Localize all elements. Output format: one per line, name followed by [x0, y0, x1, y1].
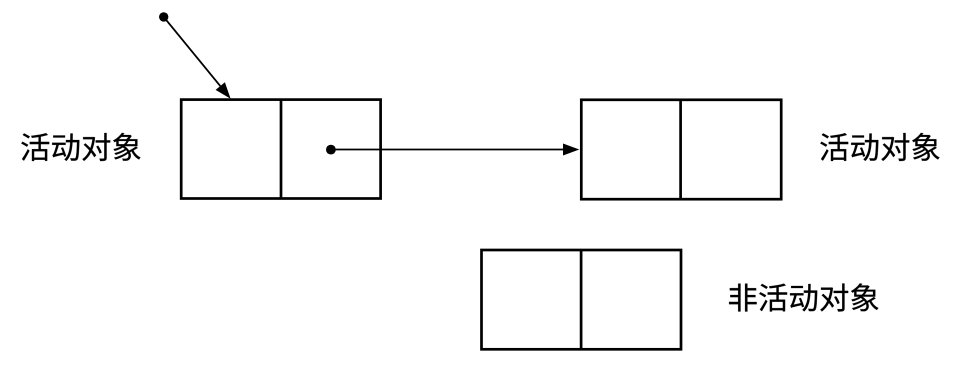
label: 活动对象 (left of object 1) [21, 133, 140, 161]
object 2 box (active object, two cells) [581, 100, 781, 199]
pointer dot inside object 1 second cell [326, 145, 336, 155]
root pointer dot (top left) [159, 12, 168, 21]
object 1 box (active object, two cells) [181, 100, 380, 199]
object 2 cell divider [679, 100, 682, 199]
arrowhead: pointer into object 2 [563, 144, 579, 156]
object 3 cell divider [580, 250, 583, 349]
label: 非活动对象 (right of object 3) [729, 283, 878, 311]
wire: pointer arrow shaft from object 1 to object 2 [331, 149, 563, 151]
arrowhead: root pointer into object 1 [216, 82, 231, 98]
object 1 cell divider [280, 100, 283, 199]
wire: root pointer arrow shaft to object 1 [164, 17, 221, 86]
label: 活动对象 (right of object 2) [820, 133, 939, 161]
object 3 box (inactive object, two cells) [482, 250, 682, 349]
